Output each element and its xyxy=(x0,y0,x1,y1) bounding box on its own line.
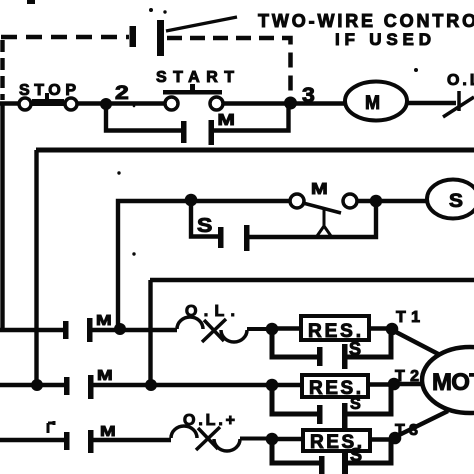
label M contact rung5 xyxy=(100,423,116,440)
label node 2 xyxy=(115,82,129,104)
label M auxiliary contact xyxy=(218,110,235,128)
label T1 xyxy=(396,309,420,326)
overload OL rung5 xyxy=(171,426,267,451)
svg-text:M: M xyxy=(218,110,235,128)
wire: S bypass rung5 right leg xyxy=(348,440,391,463)
contact M auxiliary right bar xyxy=(209,120,215,145)
motor MOTOR circle xyxy=(422,347,474,413)
wire T2 to motor xyxy=(396,382,425,386)
wire from RES rung5 to T3 xyxy=(370,437,395,441)
wire rung4 left segment xyxy=(0,383,64,387)
wire rung3 left segment xyxy=(0,328,64,332)
coil S timer xyxy=(427,180,474,219)
label RES rung3 xyxy=(308,321,361,342)
wire: L1 rail rung1 left segment xyxy=(0,101,167,105)
pushbutton STOP bar and actuator xyxy=(32,93,64,106)
contact S rung3 left bar xyxy=(317,347,323,366)
contact S interlock right bar xyxy=(244,225,250,251)
wire from RES rung3 to T1 xyxy=(369,326,392,330)
contact M rung5 left bar xyxy=(64,432,70,450)
contact M rung4 left bar xyxy=(64,377,70,395)
wire: vertical from line y280 down to rung4 xyxy=(148,280,152,385)
wire: M aux branch from node2 down and across xyxy=(106,104,181,131)
contact M rung3 left bar xyxy=(63,321,69,339)
contact M rung3 right bar xyxy=(87,318,93,342)
junction dot rung4 left rail xyxy=(31,379,43,391)
wire: S bypass rung4 loop xyxy=(272,385,317,414)
label S contact rung3 xyxy=(349,339,361,359)
wire rung3 middle segment xyxy=(92,328,177,332)
label S coil xyxy=(449,191,463,212)
wire: dashed two-wire control horizontal left segment xyxy=(1,35,129,40)
label RES rung4 xyxy=(309,378,361,399)
leader line to TWO-WIRE CONTROL label xyxy=(166,17,237,31)
svg-text:M: M xyxy=(97,367,113,384)
pushbutton START NO bar and actuator xyxy=(163,84,222,95)
junction dot rung2 left xyxy=(185,194,198,207)
svg-text:MOTOR: MOTOR xyxy=(432,369,474,396)
wire rung4 middle segment xyxy=(93,383,272,387)
wire: rung2 feed vertical down to rung3 xyxy=(118,201,191,329)
label S interlock contact xyxy=(197,213,212,236)
pushbutton START NO circles xyxy=(165,97,223,110)
junction dot rung3 at feed vertical xyxy=(114,323,126,335)
contact PB2 two-wire control left bar xyxy=(130,26,137,47)
contact M auxiliary left bar xyxy=(181,121,187,143)
svg-text:M: M xyxy=(100,423,116,440)
wire: L1 left rail vertical xyxy=(0,103,4,332)
wire: S bypass rung4 right leg xyxy=(347,386,391,414)
contact M timed circles xyxy=(290,194,357,208)
junction dot rung4 resistor left xyxy=(266,379,279,392)
label O.L. rung1 xyxy=(447,72,474,89)
svg-text:S: S xyxy=(197,213,212,236)
junction dot rung2 right xyxy=(370,195,383,208)
wire: S bypass rung3 right leg xyxy=(347,331,391,357)
wire: S bypass rung5 loop xyxy=(272,439,319,463)
cut-off glyph top edge xyxy=(27,0,35,4)
label M contact rung4 xyxy=(97,367,113,384)
label S contact rung4 xyxy=(350,394,361,413)
contact S rung5 left bar xyxy=(319,456,325,474)
label RES rung5 xyxy=(310,432,362,453)
svg-text:S: S xyxy=(449,191,463,212)
label T2 xyxy=(395,368,419,385)
wire: dashed left vertical drop to L1 xyxy=(0,40,4,100)
pushbutton STOP NC circles xyxy=(19,98,77,110)
resistor RES rung3 box xyxy=(301,316,369,340)
overload OL rung3 xyxy=(177,317,267,342)
svg-text:S: S xyxy=(350,394,361,413)
contact PB2 two-wire control right bar xyxy=(157,20,164,56)
junction dot rung3 resistor left xyxy=(266,323,279,336)
wire rung5 middle segment xyxy=(93,438,171,442)
resistor RES rung4 box xyxy=(302,375,368,397)
small mark above rung5 contact xyxy=(48,421,54,433)
label TWO-WIRE CONTROL xyxy=(258,11,474,31)
node 3 junction dot xyxy=(284,97,297,110)
label S contact rung5 xyxy=(350,445,362,465)
wire rung1 middle segment to M coil xyxy=(223,101,347,105)
contact M timed blade xyxy=(303,203,341,213)
node T1 junction dot xyxy=(386,323,399,336)
label M timed contact xyxy=(311,180,328,198)
node 2 junction dot xyxy=(100,98,112,110)
wire to RES rung5 xyxy=(272,437,303,441)
contact S rung4 right bar xyxy=(342,403,348,428)
svg-text:2: 2 xyxy=(115,82,129,104)
label STOP xyxy=(19,82,76,99)
junction dot rung4 at vertical xyxy=(145,379,157,391)
wire: S interlock branch right to rung2 junction xyxy=(249,201,376,237)
label O.L. rung5 xyxy=(183,412,235,429)
wire to RES rung3 xyxy=(272,326,301,330)
contact M rung5 right bar xyxy=(88,430,94,453)
contact S rung5 right bar xyxy=(342,453,348,474)
wire T3 to motor xyxy=(397,411,448,436)
wire: rail L2 horizontal xyxy=(36,148,474,153)
svg-text:3: 3 xyxy=(302,83,315,107)
wire from RES rung4 to T2 xyxy=(368,382,394,386)
wire T1 to motor xyxy=(394,331,444,357)
wire rung2 to S coil xyxy=(357,199,428,203)
label M contact rung3 xyxy=(96,312,112,329)
wire rung2 to M timed contact xyxy=(191,199,291,203)
label M coil xyxy=(365,92,380,114)
contact S rung3 right bar xyxy=(342,344,348,369)
junction dot rung5 resistor left xyxy=(266,433,279,446)
contact S interlock left bar xyxy=(218,227,224,248)
wire: M aux branch right up to node 3 xyxy=(214,103,289,131)
overload OL rung1 (cut at edge) xyxy=(443,91,474,117)
svg-text:M: M xyxy=(96,312,112,329)
contact M timed arrow xyxy=(317,209,331,236)
label MOTOR xyxy=(432,369,474,396)
svg-text:M: M xyxy=(365,92,380,114)
label node 3 xyxy=(302,83,315,107)
node T2 junction dot xyxy=(388,378,401,391)
label IF USED xyxy=(335,30,431,49)
svg-text:M: M xyxy=(311,180,328,198)
noise specks xyxy=(117,8,418,256)
node T3 junction dot xyxy=(389,432,402,445)
wire: S bypass rung3 loop xyxy=(272,329,317,357)
wire: horizontal line y280 to right edge xyxy=(150,278,474,282)
wire: S interlock branch left drop xyxy=(191,201,218,237)
label START xyxy=(156,69,234,86)
contact M rung4 right bar xyxy=(88,375,94,399)
coil M contactor xyxy=(345,82,407,121)
wire rung1 right segment to overload xyxy=(407,101,456,105)
wire: vertical feed from rail L2 down to rung4 xyxy=(34,150,38,385)
contact S rung4 left bar xyxy=(317,405,323,424)
wire: dashed segment from contact to node 3 (L-shape) xyxy=(167,38,291,98)
label O.L. rung3 xyxy=(185,303,235,320)
wire to RES rung4 xyxy=(272,383,302,387)
wire rung5 left segment xyxy=(0,438,64,442)
resistor RES rung5 box xyxy=(303,430,370,451)
label T3 xyxy=(395,422,418,439)
